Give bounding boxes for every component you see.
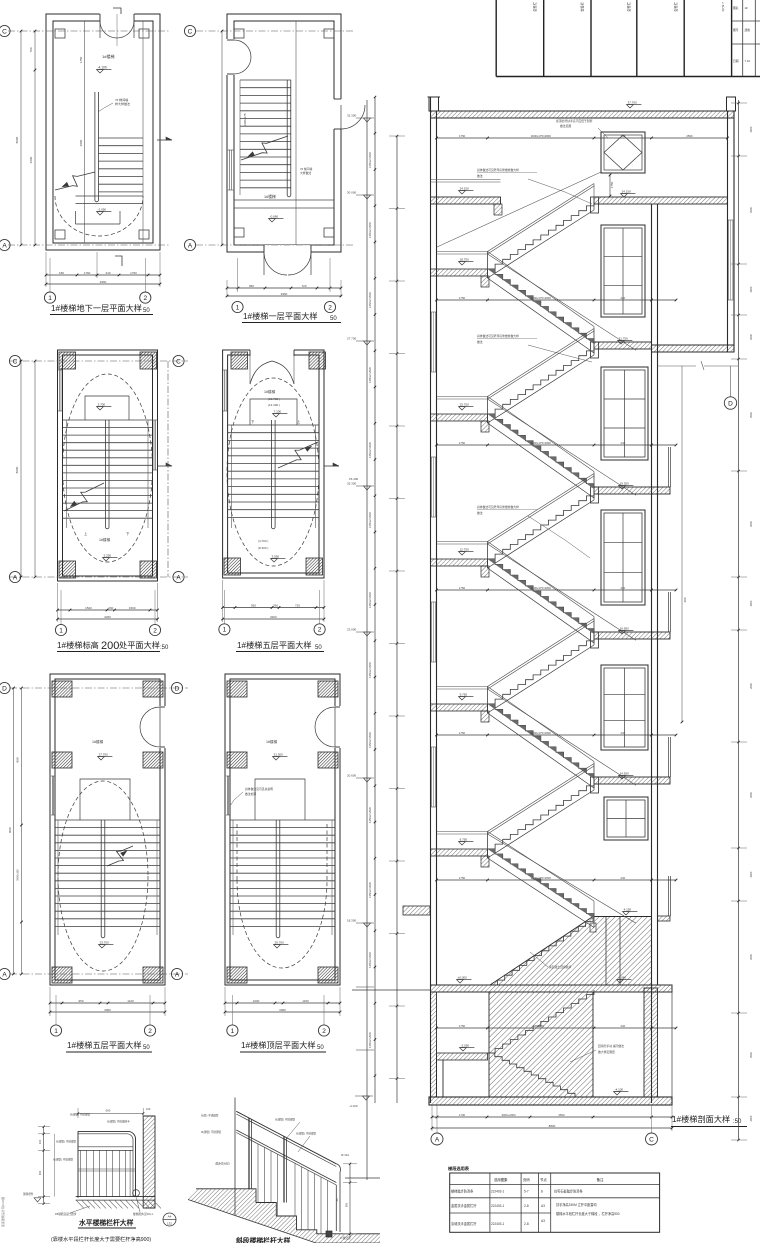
svg-text:金属扶手金属栏杆: 金属扶手金属栏杆 — [451, 1203, 477, 1208]
svg-text:Φ(钢管) 不锈钢管: Φ(钢管) 不锈钢管 — [70, 1113, 90, 1117]
svg-text:A: A — [435, 1136, 440, 1143]
svg-text:Φ(钢管) 不锈钢管: Φ(钢管) 不锈钢管 — [296, 1132, 316, 1136]
svg-text:22J403-1: 22J403-1 — [491, 1190, 505, 1194]
svg-text:具体做法见可见总说明: 具体做法见可见总说明 — [245, 787, 273, 791]
svg-text:1: 1 — [54, 1028, 58, 1035]
svg-text:3000x175=2800: 3000x175=2800 — [531, 134, 552, 138]
svg-text:1700: 1700 — [459, 1113, 466, 1117]
svg-text:A3: A3 — [541, 1219, 545, 1223]
svg-text:2: 2 — [153, 627, 157, 634]
svg-text:A: A — [188, 242, 193, 249]
svg-text:±0.000: ±0.000 — [458, 975, 467, 979]
svg-text:2000: 2000 — [538, 1024, 545, 1028]
svg-text:2: 2 — [322, 1028, 326, 1035]
svg-text:Φ(管) 不锈钢管: Φ(管) 不锈钢管 — [201, 1114, 219, 1118]
svg-text:做大样见图纸: 做大样见图纸 — [598, 1050, 615, 1054]
svg-text:2900: 2900 — [749, 1052, 753, 1058]
svg-text:15.750: 15.750 — [460, 402, 470, 406]
svg-text:1500: 1500 — [129, 606, 136, 610]
svg-text:7.10: 7.10 — [745, 59, 751, 63]
svg-text:(靠楼水平段栏杆长度大于需要: (靠楼水平段栏杆长度大于需要 — [51, 1235, 120, 1243]
svg-text:具体做法可见老年房修楼梯做大样: 具体做法可见老年房修楼梯做大样 — [477, 168, 519, 172]
svg-text:2900: 2900 — [749, 126, 753, 132]
svg-text:240: 240 — [620, 586, 625, 590]
svg-text:D: D — [175, 685, 180, 692]
svg-text:具体做法可见老年房修楼梯做大样: 具体做法可见老年房修楼梯做大样 — [477, 505, 519, 509]
svg-text:A: A — [13, 574, 18, 581]
svg-text:C: C — [649, 1136, 654, 1143]
svg-text:3960: 3960 — [104, 1008, 111, 1012]
svg-text:4.150: 4.150 — [624, 907, 632, 911]
svg-text:23.000: 23.000 — [347, 628, 357, 632]
svg-text:1750: 1750 — [459, 731, 466, 735]
svg-text:1750: 1750 — [610, 181, 614, 188]
svg-text:1#楼梯: 1#楼梯 — [264, 389, 276, 394]
svg-text:回填砼手动 素砼做法: 回填砼手动 素砼做法 — [598, 1044, 624, 1048]
svg-text:A: A — [2, 971, 7, 978]
svg-text:A: A — [175, 971, 180, 978]
svg-text:1#楼梯地下一层平面大样: 1#楼梯地下一层平面大样 — [51, 303, 142, 313]
svg-text:1450x2=2900: 1450x2=2900 — [368, 152, 372, 168]
svg-text:会签栏: 会签栏 — [673, 1, 678, 11]
svg-text:2: 2 — [148, 1028, 152, 1035]
svg-text:132: 132 — [167, 1222, 172, 1226]
svg-text:2900: 2900 — [749, 683, 753, 689]
svg-text:Φ(钢管) 不锈钢管: Φ(钢管) 不锈钢管 — [275, 1118, 295, 1122]
svg-text:22J403-1: 22J403-1 — [491, 1204, 505, 1208]
svg-text:住宅石板踏步防滑条: 住宅石板踏步防滑条 — [554, 1189, 583, 1194]
svg-text:1#: 1# — [745, 6, 749, 10]
svg-text:做法见图: 做法见图 — [560, 124, 571, 128]
svg-text:600: 600 — [106, 1109, 111, 1113]
svg-text:1450x2=2900: 1450x2=2900 — [368, 882, 372, 898]
svg-text:2900: 2900 — [749, 871, 753, 877]
svg-text:260: 260 — [273, 603, 278, 607]
svg-text:1760: 1760 — [130, 271, 137, 275]
svg-text:A: A — [176, 574, 181, 581]
svg-text:2900: 2900 — [749, 1115, 753, 1121]
svg-text:2560: 2560 — [686, 134, 693, 138]
svg-text:1#楼梯标高: 1#楼梯标高 — [57, 640, 99, 650]
svg-text:21.750: 21.750 — [619, 336, 629, 340]
svg-text:栏杆净高900): 栏杆净高900) — [120, 1235, 151, 1243]
svg-text:8000: 8000 — [15, 136, 19, 143]
svg-text:2900: 2900 — [749, 792, 753, 798]
svg-text:50: 50 — [143, 1045, 150, 1051]
svg-text:图号: 图号 — [733, 28, 739, 32]
svg-text:240: 240 — [620, 876, 625, 880]
svg-text:19.350: 19.350 — [620, 481, 630, 485]
svg-text:楼梯水平段栏杆长度大于梯段 ，栏杆净高900: 楼梯水平段栏杆长度大于梯段 ，栏杆净高900 — [556, 1211, 620, 1216]
svg-text:(踏步见大样): (踏步见大样) — [215, 1162, 230, 1166]
svg-text:-0.060: -0.060 — [618, 975, 627, 979]
svg-text:8: 8 — [541, 1190, 543, 1194]
svg-text:1: 1 — [48, 295, 52, 302]
svg-text:18.300: 18.300 — [347, 919, 357, 923]
svg-text:200: 200 — [101, 640, 119, 652]
svg-text:具体做法可见老年房修楼梯做大样: 具体做法可见老年房修楼梯做大样 — [477, 334, 519, 338]
svg-text:C: C — [176, 358, 181, 365]
svg-text:3500: 3500 — [558, 1113, 565, 1117]
svg-text:50: 50 — [330, 316, 337, 322]
svg-text:29.700: 29.700 — [275, 940, 285, 944]
svg-text:8000: 8000 — [15, 466, 19, 473]
svg-text:4500: 4500 — [16, 757, 20, 763]
svg-text:样大样做法: 样大样做法 — [115, 101, 130, 106]
svg-text:240: 240 — [620, 296, 625, 300]
svg-text:1750: 1750 — [79, 56, 83, 63]
svg-text:20.600: 20.600 — [347, 774, 357, 778]
svg-text:2: 2 — [143, 295, 147, 302]
svg-text:1#楼梯五层平面大样: 1#楼梯五层平面大样 — [67, 1040, 142, 1050]
svg-text:1450x2=2900: 1450x2=2900 — [368, 807, 372, 823]
svg-text:1: 1 — [231, 1028, 235, 1035]
svg-text:页码: 页码 — [523, 1177, 530, 1182]
svg-text:50: 50 — [317, 1045, 324, 1051]
svg-text:1120: 1120 — [127, 999, 134, 1003]
svg-text:15.400: 15.400 — [349, 477, 359, 481]
svg-text:选用图集: 选用图集 — [494, 1177, 508, 1182]
svg-text:1750: 1750 — [459, 876, 466, 880]
svg-text:18.750: 18.750 — [460, 257, 470, 261]
svg-text:1#楼梯: 1#楼梯 — [102, 53, 114, 59]
svg-text:1450x2=2900: 1450x2=2900 — [368, 222, 372, 238]
svg-text:2600: 2600 — [29, 156, 33, 163]
svg-text:50: 50 — [315, 645, 322, 651]
svg-text:3000+2000: 3000+2000 — [501, 1113, 516, 1117]
svg-text:3260: 3260 — [104, 615, 111, 619]
svg-text:9.750: 9.750 — [460, 692, 468, 696]
svg-text:3000x150: 3000x150 — [16, 869, 20, 881]
svg-text:3000x175=2800: 3000x175=2800 — [531, 296, 552, 300]
svg-text:1520: 1520 — [85, 606, 92, 610]
svg-text::50: :50 — [160, 645, 169, 651]
svg-text:Φ(钢管) 不锈钢管: Φ(钢管) 不锈钢管 — [201, 1130, 221, 1134]
svg-text:1#楼梯: 1#楼梯 — [264, 194, 276, 199]
svg-text:1750: 1750 — [459, 586, 466, 590]
svg-text:A: A — [2, 242, 7, 249]
svg-text:1750: 1750 — [459, 296, 466, 300]
svg-text:950: 950 — [251, 603, 256, 607]
svg-text:楼梯踏步防滑条: 楼梯踏步防滑条 — [451, 1189, 474, 1194]
svg-text:1450x2=2900: 1450x2=2900 — [368, 367, 372, 383]
svg-text:1#楼梯: 1#楼梯 — [99, 537, 111, 542]
svg-text:2900: 2900 — [749, 334, 753, 340]
svg-text:做法: 做法 — [477, 511, 483, 515]
svg-text:做法: 做法 — [477, 340, 483, 344]
svg-text:2900: 2900 — [749, 521, 753, 527]
svg-text:37.700: 37.700 — [628, 100, 638, 104]
svg-text:22J403-1: 22J403-1 — [491, 1222, 505, 1226]
svg-text:做法: 做法 — [477, 174, 483, 178]
svg-text:D8钢筋混凝土踏步: D8钢筋混凝土踏步 — [55, 1212, 77, 1216]
svg-text:240: 240 — [105, 271, 110, 275]
svg-text:50: 50 — [143, 308, 150, 314]
svg-text:梯段选用表: 梯段选用表 — [448, 1165, 470, 1172]
svg-text:A4: A4 — [168, 1215, 172, 1219]
svg-text:D: D — [2, 685, 7, 692]
svg-text:2900: 2900 — [749, 207, 753, 213]
svg-text:3260: 3260 — [270, 615, 277, 619]
svg-text:3000x175=2800: 3000x175=2800 — [531, 586, 552, 590]
svg-text:24.150: 24.150 — [460, 186, 470, 190]
svg-text:720: 720 — [301, 284, 306, 288]
svg-text:屋顶栏杆扶手高不应低于别墅: 屋顶栏杆扶手高不应低于别墅 — [556, 119, 593, 123]
svg-text:1450x2=2900: 1450x2=2900 — [368, 1032, 372, 1048]
svg-text:节点: 节点 — [540, 1177, 547, 1182]
svg-text:700: 700 — [29, 47, 33, 52]
svg-text:100: 100 — [146, 1107, 151, 1111]
svg-text:3960: 3960 — [281, 292, 288, 296]
svg-text:8800: 8800 — [549, 1124, 556, 1128]
svg-text:-0.060: -0.060 — [270, 214, 279, 218]
svg-text:C: C — [2, 28, 7, 35]
svg-text:7.100: 7.100 — [274, 409, 282, 413]
svg-text:1450x2=2900: 1450x2=2900 — [368, 442, 372, 458]
svg-text:D: D — [728, 400, 733, 407]
svg-text:720: 720 — [295, 603, 300, 607]
svg-text:Φ(钢管) 不锈钢管: Φ(钢管) 不锈钢管 — [56, 1140, 76, 1144]
svg-text:靠墙扶手金属栏杆: 靠墙扶手金属栏杆 — [451, 1221, 477, 1226]
svg-text:240: 240 — [620, 1024, 625, 1028]
svg-text:1450x2=2900: 1450x2=2900 — [368, 732, 372, 748]
svg-text:1#楼梯: 1#楼梯 — [266, 739, 278, 744]
svg-text:-4.100: -4.100 — [615, 1087, 624, 1091]
svg-text:Φ≈±2A: Φ≈±2A — [341, 1153, 349, 1157]
svg-text:2: 2 — [318, 627, 322, 634]
svg-text:建施: 建施 — [745, 28, 751, 32]
svg-text:1: 1 — [223, 627, 227, 634]
svg-text::50: :50 — [733, 1119, 742, 1125]
svg-text:100: 100 — [38, 1139, 42, 1144]
svg-text:180: 180 — [59, 271, 64, 275]
svg-text:楼梯踏步(见03)-1: 楼梯踏步(见03)-1 — [133, 1212, 153, 1216]
svg-text:23.700: 23.700 — [100, 940, 110, 944]
svg-text:1750: 1750 — [459, 441, 466, 445]
svg-text:1450x2=2900: 1450x2=2900 — [368, 952, 372, 968]
svg-text:2800: 2800 — [79, 139, 83, 146]
svg-text:1#楼梯剖面大样: 1#楼梯剖面大样 — [672, 1114, 730, 1124]
svg-text:扶手净高150M 立杆中距雷均: 扶手净高150M 立杆中距雷均 — [556, 1202, 597, 1207]
svg-text:5.250: 5.250 — [104, 553, 112, 557]
svg-text:会签栏: 会签栏 — [580, 1, 585, 11]
svg-text:1000: 1000 — [253, 999, 260, 1003]
svg-text:950: 950 — [249, 284, 254, 288]
svg-text:3300x175: 3300x175 — [243, 113, 247, 127]
svg-text:1450x2=2900: 1450x2=2900 — [368, 512, 372, 528]
svg-text:1#楼梯五层平面大样: 1#楼梯五层平面大样 — [237, 640, 312, 650]
svg-text:950: 950 — [78, 999, 83, 1003]
svg-text:备注: 备注 — [597, 1177, 604, 1182]
svg-text:6.750: 6.750 — [460, 837, 468, 841]
svg-text:27.700: 27.700 — [347, 337, 357, 341]
svg-text:图名: 图名 — [733, 6, 739, 10]
svg-text:±≈做法见: ±≈做法见 — [340, 1236, 351, 1240]
svg-text:900: 900 — [38, 1170, 42, 1175]
svg-text:260: 260 — [108, 606, 113, 610]
svg-text:3000x175=2800: 3000x175=2800 — [531, 441, 552, 445]
svg-text:900: 900 — [345, 1202, 349, 1207]
svg-text:2900: 2900 — [749, 954, 753, 960]
svg-text:24.150: 24.150 — [622, 189, 632, 193]
svg-text:2900: 2900 — [749, 412, 753, 418]
svg-text:会签栏: 会签栏 — [626, 1, 631, 11]
svg-text:1450x2=2900: 1450x2=2900 — [368, 292, 372, 308]
svg-text:1750: 1750 — [459, 134, 466, 138]
svg-text:31.300: 31.300 — [274, 752, 284, 756]
svg-text:处平面大样: 处平面大样 — [119, 640, 160, 650]
svg-text:-4.100: -4.100 — [98, 65, 107, 69]
svg-text:5-7: 5-7 — [524, 1190, 529, 1194]
svg-text:380: 380 — [683, 597, 687, 602]
svg-text:240: 240 — [620, 441, 625, 445]
svg-text:1150: 1150 — [302, 999, 309, 1003]
svg-text:2900: 2900 — [749, 600, 753, 606]
svg-text:C: C — [188, 28, 193, 35]
svg-text:3000x175=2800: 3000x175=2800 — [531, 876, 552, 880]
svg-text:3960: 3960 — [100, 280, 107, 284]
svg-text:3000x175=2800: 3000x175=2800 — [531, 731, 552, 735]
svg-text:水平楼梯栏杆大样: 水平楼梯栏杆大样 — [78, 1218, 134, 1227]
svg-text:2: 2 — [328, 304, 332, 311]
svg-text:(4.700 ): (4.700 ) — [258, 539, 268, 543]
svg-text:斜段楼梯栏杆大样: 斜段楼梯栏杆大样 — [235, 1236, 291, 1243]
svg-text:30.000: 30.000 — [347, 191, 357, 195]
svg-text:-2.050: -2.050 — [461, 1043, 470, 1047]
svg-text:素混凝土回填踏步: 素混凝土回填踏步 — [549, 965, 572, 969]
svg-text:1750: 1750 — [459, 1024, 466, 1028]
svg-text:某某建筑设计院CAD图: 某某建筑设计院CAD图 — [0, 1197, 5, 1227]
svg-text:1#楼梯: 1#楼梯 — [92, 739, 104, 744]
svg-text:1760: 1760 — [84, 271, 91, 275]
svg-text:27.700: 27.700 — [99, 752, 109, 756]
svg-text:-4.100: -4.100 — [349, 1104, 358, 1108]
svg-text:1450x2=2900: 1450x2=2900 — [368, 662, 372, 678]
svg-text:日期: 日期 — [733, 59, 739, 63]
svg-text:Φ(钢管) 不锈钢管: Φ(钢管) 不锈钢管 — [53, 1158, 73, 1162]
svg-text:C: C — [13, 358, 18, 365]
svg-text:1#楼梯一层平面大样: 1#楼梯一层平面大样 — [243, 311, 318, 321]
svg-text:8000: 8000 — [8, 827, 12, 833]
svg-text:钢预埋件: 钢预埋件 — [23, 1192, 34, 1196]
svg-text:1450x2=2900: 1450x2=2900 — [368, 592, 372, 608]
svg-text:2.700: 2.700 — [98, 402, 106, 406]
svg-text:(14.300 ): (14.300 ) — [268, 403, 280, 407]
svg-text:750: 750 — [620, 134, 625, 138]
svg-text:32.300: 32.300 — [347, 114, 357, 118]
svg-text:会签栏: 会签栏 — [532, 1, 537, 11]
svg-text:12.750: 12.750 — [460, 547, 470, 551]
svg-text:1#楼梯顶层平面大样: 1#楼梯顶层平面大样 — [241, 1040, 316, 1050]
svg-text:240: 240 — [620, 731, 625, 735]
svg-text:2900: 2900 — [749, 286, 753, 292]
svg-text:3.550: 3.550 — [272, 554, 280, 558]
svg-text:1: 1 — [59, 627, 63, 634]
svg-text:16.950: 16.950 — [620, 626, 630, 630]
svg-text:25.300: 25.300 — [347, 482, 357, 486]
svg-text:3960: 3960 — [279, 1008, 286, 1012]
svg-text:A3: A3 — [541, 1204, 545, 1208]
svg-text:4(7)9 7: 4(7)9 7 — [721, 2, 725, 12]
svg-text:-2.050: -2.050 — [98, 207, 107, 211]
svg-text:14.550: 14.550 — [620, 771, 630, 775]
svg-text:大样做法: 大样做法 — [300, 171, 311, 175]
svg-text:(8.300 ): (8.300 ) — [258, 546, 268, 550]
svg-text:2-8: 2-8 — [524, 1222, 529, 1226]
svg-text:1: 1 — [236, 304, 240, 311]
svg-text:Φ(钢管) 不锈钢扶手: Φ(钢管) 不锈钢扶手 — [107, 1120, 130, 1124]
svg-text:2-8: 2-8 — [524, 1204, 529, 1208]
